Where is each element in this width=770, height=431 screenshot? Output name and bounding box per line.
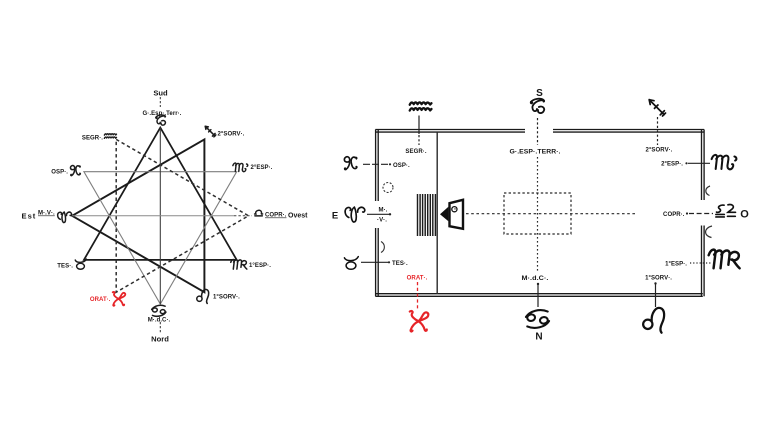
virgo glyph left diagram	[231, 259, 247, 269]
dashed line to SEGR	[418, 135, 420, 145]
svg-text:S: S	[536, 88, 543, 99]
dotted line 1 ESP to virgo	[690, 262, 711, 264]
svg-text:TES·.: TES·.	[57, 264, 73, 270]
right wall north segment	[702, 130, 705, 201]
svg-text:2°ESP·.: 2°ESP·.	[661, 162, 683, 168]
sagittarius arrow plan (top-right outside)	[649, 100, 665, 116]
aries glyph left diagram	[58, 212, 72, 223]
dashed line S door	[537, 118, 539, 145]
capricorn glyph plan	[531, 99, 544, 113]
leo glyph left diagram	[197, 289, 209, 303]
capricorn glyph left diagram	[156, 115, 166, 125]
svg-text:ORAT·.: ORAT·.	[407, 276, 428, 282]
svg-text:2°ESP·.: 2°ESP·.	[251, 165, 273, 171]
svg-text:Nord: Nord	[151, 335, 169, 344]
horizontal axis Aries-Libra	[72, 215, 234, 217]
svg-text:Sud: Sud	[153, 89, 168, 98]
aries glyph plan	[345, 207, 365, 222]
hatched pillar (harmodium)	[418, 194, 436, 236]
left wall north segment	[376, 130, 379, 202]
vertical axis Capricorn-Cancer	[159, 128, 161, 304]
line M d.C to cancer	[537, 283, 539, 307]
svg-text:COPR·.: COPR·.	[663, 212, 685, 218]
svg-text:2°SORV·.: 2°SORV·.	[646, 148, 673, 154]
central dashed altar rectangle	[504, 193, 571, 234]
top wall east segment	[553, 130, 704, 133]
water triangle Pisces-Scorpio-Cancer	[84, 172, 237, 304]
fire triangle Aries-Sagittarius-Leo	[72, 139, 204, 292]
door arc right bottom	[706, 226, 712, 238]
door arc left lower	[381, 242, 384, 253]
dashed line from sagittarius to 2 SORV	[657, 117, 659, 145]
top wall west segment	[375, 130, 525, 133]
svg-text:Ovest: Ovest	[288, 213, 308, 220]
line from aquarius through wall	[418, 116, 420, 135]
aquarius glyph plan (top-left outside)	[410, 102, 432, 110]
scorpio glyph left diagram	[233, 163, 248, 172]
svg-text:·V·.: ·V·.	[377, 218, 387, 224]
aquarius glyph left diagram	[104, 134, 116, 139]
svg-text:M·.V·.: M·.V·.	[38, 211, 55, 217]
svg-text:TES·.: TES·.	[392, 261, 408, 267]
dashed link Sud label	[159, 97, 161, 107]
door arc right top	[706, 186, 710, 196]
pisces glyph left diagram	[70, 165, 80, 175]
virgo glyph plan	[709, 250, 740, 269]
line 2 ESP to scorpio	[685, 162, 710, 164]
dashed link Nord label	[159, 322, 161, 334]
svg-text:SEGR·.: SEGR·.	[82, 136, 103, 142]
throne of the Venerable (chair symbol)	[440, 200, 463, 229]
taurus glyph left diagram	[75, 259, 86, 269]
central dashed axis vertical	[537, 157, 539, 271]
horizontal axis dashed tip to Libra	[234, 215, 252, 217]
central dashed axis horizontal	[466, 213, 637, 215]
earth triangle Capricorn-Virgo-Taurus	[84, 128, 237, 260]
svg-text:1°ESP·.: 1°ESP·.	[249, 263, 271, 269]
svg-text:M·.d.C·.: M·.d.C·.	[148, 318, 171, 324]
right wall south segment	[702, 226, 705, 297]
pisces glyph plan (left outside)	[344, 157, 357, 170]
gemini glyph red plan	[410, 311, 429, 331]
svg-text:OSP·.: OSP·.	[393, 163, 410, 169]
dashed door circle left	[383, 183, 393, 193]
svg-text:Est: Est	[22, 212, 37, 221]
svg-text:1°SORV·.: 1°SORV·.	[213, 295, 240, 301]
svg-text:ORAT·.: ORAT·.	[90, 297, 111, 303]
libra glyph left diagram	[255, 210, 263, 216]
gemini glyph red left diagram	[113, 292, 126, 306]
libra glyphs plan	[716, 205, 724, 217]
red dashed line ORAT	[417, 282, 419, 310]
svg-text:2°SORV·.: 2°SORV·.	[218, 132, 245, 138]
svg-text:M·.d.C·.: M·.d.C·.	[522, 276, 549, 282]
svg-text:COPR·.: COPR·.	[265, 213, 287, 219]
svg-text:1°ESP·.: 1°ESP·.	[665, 262, 687, 268]
left wall south segment	[376, 228, 379, 296]
leo glyph plan	[643, 308, 664, 333]
line COPR to libra	[686, 212, 713, 214]
svg-text:G·.ESP·.TERR·.: G·.ESP·.TERR·.	[510, 150, 561, 156]
svg-text:SEGR·.: SEGR·.	[405, 149, 426, 155]
svg-text:O: O	[740, 209, 749, 221]
svg-text:1°SORV·.: 1°SORV·.	[645, 276, 672, 282]
line taurus to TES	[361, 261, 390, 263]
cancer glyph left diagram	[151, 305, 166, 317]
bottom wall	[375, 294, 702, 297]
inner partition wall	[436, 132, 438, 294]
cancer glyph plan	[525, 309, 550, 329]
line pisces to OSP	[363, 163, 391, 165]
east door line with M V labels	[367, 213, 391, 215]
svg-text:OSP·.: OSP·.	[51, 170, 68, 176]
scorpio glyph plan	[712, 155, 737, 169]
svg-text:M·.: M·.	[379, 208, 388, 214]
air triangle Aquarius-Libra-Gemini (dashed)	[116, 139, 248, 292]
sagittarius arrow left diagram	[205, 126, 216, 137]
svg-text:E: E	[332, 211, 338, 222]
taurus glyph plan	[344, 257, 358, 270]
line 1 SORV to leo	[654, 282, 656, 307]
svg-text:N: N	[535, 332, 542, 343]
